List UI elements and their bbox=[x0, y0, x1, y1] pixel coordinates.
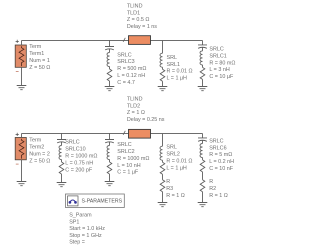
svg-text:C = 200 pF: C = 200 pF bbox=[65, 167, 93, 173]
svg-text:TLD2: TLD2 bbox=[127, 103, 140, 109]
svg-text:R3: R3 bbox=[166, 186, 173, 192]
capacitor-inductor-resistor SRLC3 branch bbox=[105, 40, 115, 91]
svg-text:Z = 1 Ω: Z = 1 Ω bbox=[127, 110, 145, 116]
svg-text:L = 0.12 nH: L = 0.12 nH bbox=[117, 73, 145, 79]
svg-text:R = 1 Ω: R = 1 Ω bbox=[166, 193, 185, 199]
svg-text:L = 0.75 nH: L = 0.75 nH bbox=[65, 160, 93, 166]
svg-text:S-PARAMETERS: S-PARAMETERS bbox=[82, 198, 123, 204]
capacitor-inductor-resistor SRLC2 branch bbox=[105, 133, 115, 186]
svg-text:TLIND: TLIND bbox=[127, 4, 143, 10]
svg-text:SRLC: SRLC bbox=[209, 47, 223, 53]
svg-text:C = 1 µF: C = 1 µF bbox=[117, 170, 139, 176]
svg-text:Stop = 1 GHz: Stop = 1 GHz bbox=[69, 233, 102, 239]
svg-text:R = 1000 mΩ: R = 1000 mΩ bbox=[65, 154, 97, 160]
svg-text:Delay = 1 ns: Delay = 1 ns bbox=[127, 24, 157, 30]
svg-text:R = 5 mΩ: R = 5 mΩ bbox=[209, 152, 232, 158]
svg-text:R = 0.01 Ω: R = 0.01 Ω bbox=[167, 69, 193, 75]
svg-text:SRL: SRL bbox=[166, 145, 177, 151]
svg-text:SRLC3: SRLC3 bbox=[117, 59, 134, 65]
svg-text:L = 1 µH: L = 1 µH bbox=[167, 76, 188, 82]
svg-text:C = 10 nF: C = 10 nF bbox=[209, 166, 234, 172]
wire: top net from Term1 to TLD1 bbox=[22, 40, 129, 42]
Term1 (Num=1, Z=50 Ohm) bbox=[15, 45, 26, 67]
capacitor-inductor-resistor SRLC1 branch at wire corner bbox=[198, 41, 208, 91]
svg-text:TLIND: TLIND bbox=[127, 97, 143, 103]
svg-text:Start = 1.0 kHz: Start = 1.0 kHz bbox=[69, 226, 105, 232]
transmission line TLD2 bbox=[123, 131, 125, 135]
svg-text:SRLC: SRLC bbox=[209, 138, 223, 144]
inductor-resistor SRL1 branch bbox=[158, 41, 168, 91]
svg-text:Step =: Step = bbox=[69, 240, 85, 246]
capacitor-inductor-resistor SRLC10 branch bbox=[57, 133, 67, 187]
svg-text:SRL1: SRL1 bbox=[167, 62, 181, 68]
svg-text:C = 4.7: C = 4.7 bbox=[117, 80, 135, 86]
wire: TLD1 output to SRLC1 corner bbox=[151, 40, 203, 42]
svg-text:Delay = 0.25 ns: Delay = 0.25 ns bbox=[127, 117, 165, 123]
svg-text:R: R bbox=[166, 179, 170, 185]
inductor-resistor SRL2 with resistor R3 branch bbox=[158, 134, 168, 207]
svg-text:C = 10 µF: C = 10 µF bbox=[209, 74, 234, 80]
svg-text:Num = 2: Num = 2 bbox=[29, 151, 50, 157]
svg-text:SRLC: SRLC bbox=[117, 142, 131, 148]
svg-text:SP1: SP1 bbox=[69, 219, 79, 225]
svg-text:TLD1: TLD1 bbox=[127, 10, 140, 16]
svg-text:R = 1000 mΩ: R = 1000 mΩ bbox=[117, 156, 149, 162]
wire: TLD2 output to SRLC6 corner bbox=[151, 133, 203, 135]
svg-text:Z = 50 Ω: Z = 50 Ω bbox=[29, 158, 50, 164]
svg-text:Term: Term bbox=[29, 138, 41, 144]
svg-text:Z = 0.5 Ω: Z = 0.5 Ω bbox=[127, 17, 149, 23]
svg-text:SRL2: SRL2 bbox=[166, 152, 180, 158]
svg-text:SRLC1: SRLC1 bbox=[209, 53, 226, 59]
S-PARAMETERS simulation controller box bbox=[66, 194, 125, 208]
Term2 (Num=2, Z=50 Ohm) bbox=[15, 138, 26, 160]
svg-text:R: R bbox=[209, 179, 213, 185]
svg-text:R = 0.01 Ω: R = 0.01 Ω bbox=[166, 158, 192, 164]
svg-text:Term2: Term2 bbox=[29, 145, 44, 151]
svg-text:Num = 1: Num = 1 bbox=[29, 58, 50, 64]
svg-text:SRLC2: SRLC2 bbox=[117, 149, 134, 155]
svg-text:R = 1 Ω: R = 1 Ω bbox=[209, 193, 228, 199]
svg-text:L = 1 µH: L = 1 µH bbox=[166, 165, 187, 171]
svg-text:R2: R2 bbox=[209, 186, 216, 192]
svg-text:Z = 50 Ω: Z = 50 Ω bbox=[29, 65, 50, 71]
svg-text:Term: Term bbox=[29, 44, 41, 50]
capacitor-inductor-resistor SRLC6 with resistor R2 branch at wire corner bbox=[198, 134, 208, 207]
svg-text:SRL: SRL bbox=[167, 55, 178, 61]
wire: bottom net from Term2 to TLD2 bbox=[22, 133, 129, 135]
transmission line TLD1 bbox=[123, 38, 125, 42]
svg-text:R = 80 mΩ: R = 80 mΩ bbox=[209, 60, 235, 66]
svg-text:R = 500 mΩ: R = 500 mΩ bbox=[117, 66, 146, 72]
svg-text:L = 3 nH: L = 3 nH bbox=[209, 67, 229, 73]
svg-text:L = 10 nH: L = 10 nH bbox=[117, 163, 140, 169]
svg-text:S_Param: S_Param bbox=[69, 213, 92, 219]
svg-text:SRLC: SRLC bbox=[65, 140, 79, 146]
svg-text:SRLC: SRLC bbox=[117, 52, 131, 58]
svg-text:L = 0.2 nH: L = 0.2 nH bbox=[209, 159, 234, 165]
svg-text:SRLC6: SRLC6 bbox=[209, 145, 226, 151]
svg-text:SRLC10: SRLC10 bbox=[65, 147, 85, 153]
S-PARAMETERS icon glyph bbox=[69, 200, 76, 203]
svg-text:Term1: Term1 bbox=[29, 51, 44, 57]
